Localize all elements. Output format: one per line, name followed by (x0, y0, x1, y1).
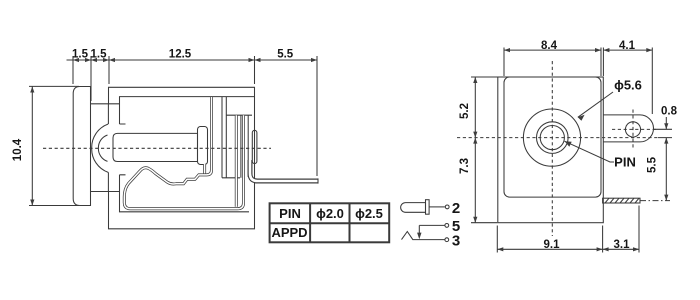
pin 3 blade zigzag (402, 232, 445, 240)
body inner top (120, 97, 255, 124)
svg-text:8.4: 8.4 (541, 40, 558, 52)
table column line 1 (309, 203, 311, 242)
extension line x=109 (108, 56, 110, 84)
dimension 9.1 / 3.1 bottom (497, 206, 639, 253)
dimension 0.8 (653, 117, 672, 138)
dimension 10.4 vertical (29, 86, 79, 205)
extension line x=317 (316, 56, 318, 176)
neck bottom line (91, 191, 120, 193)
svg-text:2: 2 (452, 200, 460, 217)
extension line x=91 (90, 56, 92, 101)
label phi 5.6 with leader (578, 92, 613, 117)
svg-text:0.8: 0.8 (661, 106, 678, 118)
svg-text:10.4: 10.4 (12, 138, 24, 161)
ear tab hole (625, 122, 640, 137)
svg-text:ϕ5.6: ϕ5.6 (614, 78, 642, 93)
spring fold vertical (235, 115, 238, 207)
ear tab (603, 115, 653, 142)
pin collar (198, 127, 208, 165)
svg-text:7.3: 7.3 (459, 158, 471, 174)
svg-text:ϕ2.0: ϕ2.0 (316, 206, 344, 221)
horizontal centerline body (457, 137, 658, 139)
bushing outer circle (523, 109, 580, 166)
extension line x=73 (72, 56, 74, 84)
boss inner arc (98, 135, 107, 161)
svg-text:APPD: APPD (271, 225, 307, 240)
contact box (222, 97, 252, 178)
L terminal lug (250, 160, 318, 181)
svg-text:3.1: 3.1 (614, 239, 631, 251)
dimension top line (67, 56, 318, 176)
flange (73, 87, 90, 206)
pin 5 line (419, 224, 444, 226)
svg-text:ϕ2.5: ϕ2.5 (355, 206, 383, 221)
switch vertical with arrow (418, 225, 420, 236)
bushing ring circle (537, 122, 569, 154)
svg-text:PIN: PIN (614, 155, 636, 170)
body inner bottom (120, 175, 250, 212)
spring contact wire (124, 97, 243, 209)
svg-text:PIN: PIN (279, 206, 301, 221)
table row divider (270, 222, 390, 224)
solder tab hatch (605, 198, 639, 203)
dimension arrows top (73, 58, 317, 62)
outer housing rect (498, 77, 604, 223)
boss outer arc (92, 124, 109, 172)
dimension 5.5 right (665, 138, 667, 201)
svg-text:5.2: 5.2 (459, 103, 471, 119)
side contact pill (252, 130, 257, 163)
solder tab dash-dot extension (640, 200, 670, 202)
bore shelf stubs (120, 124, 126, 175)
body outer (109, 87, 255, 229)
center pin barrel (113, 133, 198, 161)
label PIN with leader (565, 141, 615, 162)
svg-text:5.5: 5.5 (646, 156, 658, 173)
ear hole vertical centerline (632, 110, 634, 151)
neck top line (91, 103, 120, 105)
svg-text:9.1: 9.1 (544, 239, 561, 251)
svg-text:5.5: 5.5 (277, 49, 294, 61)
inner flange rounded rect (504, 77, 601, 197)
pin 2 plug symbol (401, 203, 426, 213)
dimension 4.1 (603, 48, 652, 115)
vertical centerline body (551, 61, 553, 236)
centerline left view (43, 147, 271, 149)
svg-text:1.5: 1.5 (91, 49, 108, 61)
svg-text:12.5: 12.5 (169, 49, 192, 61)
extension line x=254.5 (254, 56, 256, 84)
table frame (270, 203, 390, 242)
svg-text:1.5: 1.5 (72, 49, 89, 61)
body left edge segments at boss (107, 104, 109, 124)
dimension 5.2 / 7.3 vertical (471, 77, 498, 223)
ear hole horizontal centerline (612, 128, 658, 130)
dimension 8.4 (504, 48, 601, 77)
pin tail (203, 164, 206, 174)
pin hole circle (540, 126, 564, 150)
table column line 2 (349, 203, 351, 242)
svg-text:3: 3 (452, 233, 460, 250)
solder tab strip (603, 198, 640, 203)
svg-text:4.1: 4.1 (619, 40, 636, 52)
